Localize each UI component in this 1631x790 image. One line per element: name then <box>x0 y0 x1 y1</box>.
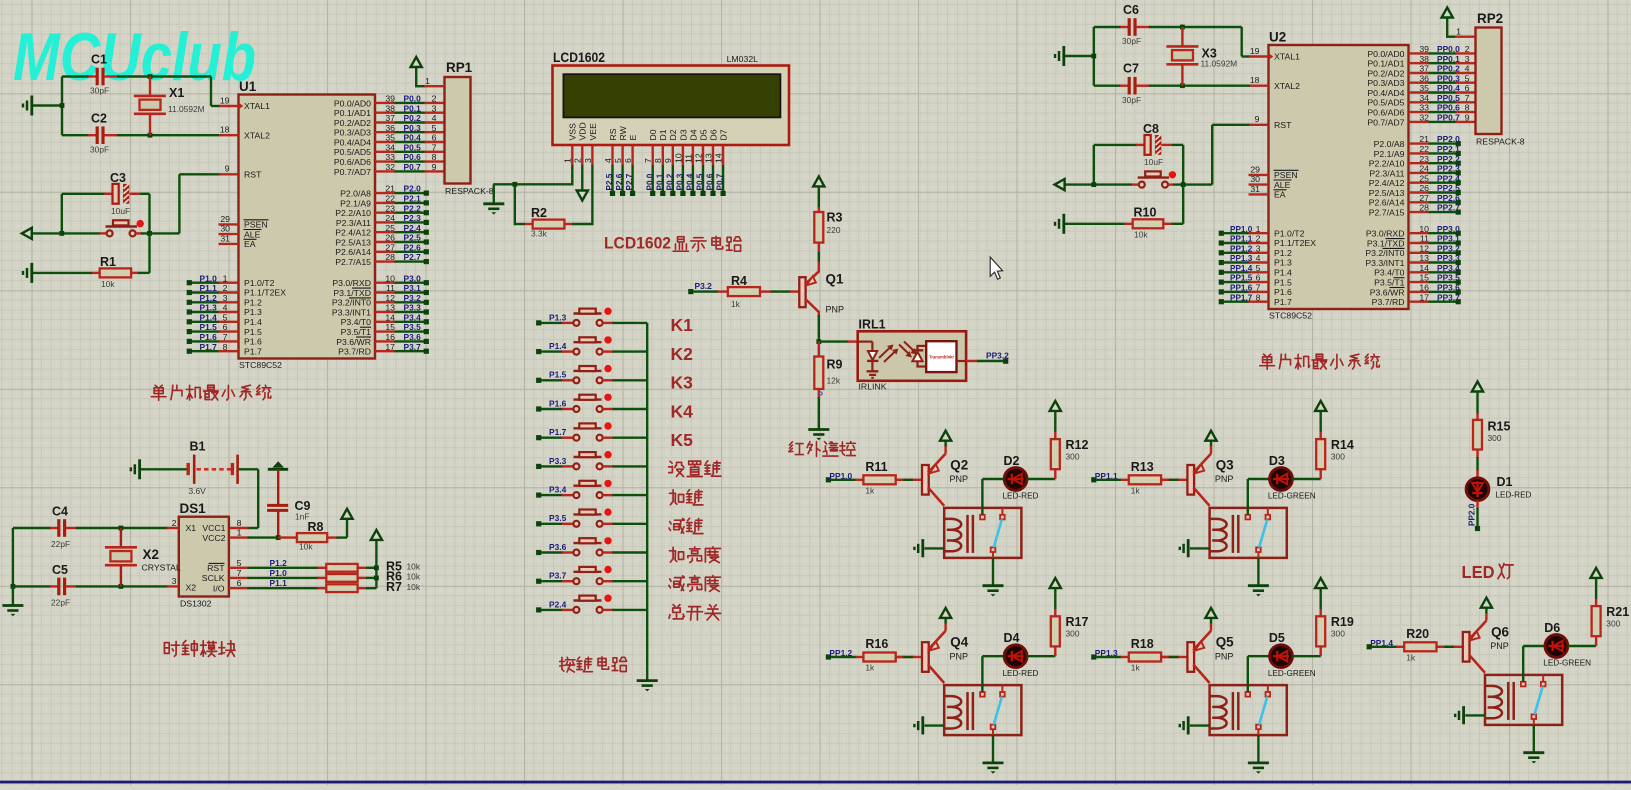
push button P3.3 key <box>536 464 541 469</box>
svg-text:D6: D6 <box>708 129 718 140</box>
wire R1 to button junction <box>148 233 150 273</box>
svg-text:P1.5: P1.5 <box>549 370 567 380</box>
svg-text:C4: C4 <box>52 505 68 519</box>
svg-text:P2.6: P2.6 <box>615 173 624 190</box>
keypad bus wire <box>646 323 648 680</box>
svg-text:P0.2/AD2: P0.2/AD2 <box>1367 68 1404 78</box>
resistor R8 10k <box>278 536 298 538</box>
wire ground drop VSS <box>493 184 495 203</box>
pin P0.1 U2 to RP2 <box>1409 62 1430 64</box>
ground relay Q6 <box>1523 751 1544 754</box>
red state dot reset button U1 <box>137 220 144 227</box>
svg-text:3: 3 <box>223 293 228 303</box>
svg-text:P3.7/RD: P3.7/RD <box>338 347 371 357</box>
svg-text:P3.4/T0: P3.4/T0 <box>341 317 372 327</box>
svg-text:LED-RED: LED-RED <box>1003 492 1039 501</box>
pin P0.5 U1 to RP1 <box>375 151 395 153</box>
crystal X1 11.0592M <box>149 77 151 96</box>
LCD1602 display LM032L <box>553 66 790 146</box>
svg-text:D2: D2 <box>668 129 678 140</box>
transistor Q5 PNP <box>1187 642 1194 672</box>
wire XTAL1 net U2 <box>1240 27 1242 57</box>
receiver block IRL1 <box>926 341 956 372</box>
pin P2.1 U1 with terminal <box>375 202 395 204</box>
svg-text:LED: LED <box>1462 562 1495 582</box>
pin P3.1 U1 with terminal <box>375 291 395 293</box>
capacitor C7 30pF <box>1094 84 1121 86</box>
svg-text:P1.1/T2EX: P1.1/T2EX <box>1274 238 1316 248</box>
svg-text:2: 2 <box>1256 234 1261 244</box>
terminal PP2.0 <box>1475 526 1480 531</box>
svg-text:P1.7: P1.7 <box>200 342 218 352</box>
svg-text:PP0.6: PP0.6 <box>1437 103 1460 113</box>
wire D4 to R17 <box>1027 655 1055 657</box>
svg-text:C1: C1 <box>91 53 107 67</box>
reset button U2 <box>1138 176 1169 178</box>
pin P0.1 U1 to RP1 <box>375 111 395 113</box>
wire D5 to R19 <box>1293 655 1321 657</box>
svg-text:7: 7 <box>1256 283 1261 293</box>
svg-text:P0.5: P0.5 <box>696 173 705 190</box>
svg-text:X2: X2 <box>143 547 159 562</box>
svg-text:PP0.7: PP0.7 <box>1437 113 1460 123</box>
svg-text:30: 30 <box>220 224 230 234</box>
svg-text:PNP: PNP <box>1215 651 1234 661</box>
svg-text:1: 1 <box>223 273 228 283</box>
svg-text:C7: C7 <box>1123 62 1139 76</box>
pin P2.2 U2 with terminal PP2.2 <box>1409 162 1430 164</box>
svg-text:PP1.7: PP1.7 <box>1230 293 1253 302</box>
svg-text:10: 10 <box>673 153 683 163</box>
svg-text:18: 18 <box>1250 75 1260 85</box>
svg-text:36: 36 <box>385 123 395 133</box>
ground left of B1 <box>138 459 141 479</box>
power arrow R21 <box>1591 568 1602 578</box>
svg-text:P1.6: P1.6 <box>1274 287 1292 297</box>
svg-text:29: 29 <box>220 214 230 224</box>
push button P1.3 key <box>536 320 541 325</box>
svg-text:PNP: PNP <box>826 305 845 315</box>
label minimal system 1 <box>151 385 166 400</box>
svg-text:P1.1/T2EX: P1.1/T2EX <box>244 288 286 298</box>
svg-text:P3.4: P3.4 <box>549 485 567 495</box>
LED D3 LED-GREEN <box>1270 468 1293 491</box>
pin P3.0 U1 with terminal <box>375 282 395 284</box>
svg-text:P2.3/A11: P2.3/A11 <box>336 218 371 228</box>
label key 加亮度 <box>669 547 683 562</box>
pin row R6 DS1 <box>229 577 249 579</box>
pin P2.6 U2 with terminal PP2.6 <box>1409 201 1430 203</box>
svg-text:P3.6/WR: P3.6/WR <box>1370 287 1405 297</box>
wire D1 to PP2.0 <box>1476 500 1478 509</box>
junction left rail U2 <box>1091 54 1096 59</box>
ground relay Q4 <box>983 762 1004 765</box>
LED D6 LED-GREEN <box>1545 635 1568 658</box>
svg-text:P3.7: P3.7 <box>549 571 567 581</box>
svg-text:P0.5/AD5: P0.5/AD5 <box>334 147 371 157</box>
svg-text:14: 14 <box>385 312 395 322</box>
svg-text:P0.2: P0.2 <box>404 113 422 123</box>
pin P1.7 U1 with terminal <box>192 350 220 352</box>
svg-text:P2.4: P2.4 <box>404 223 422 233</box>
svg-text:300: 300 <box>1331 452 1345 462</box>
wire collector Q6 to power <box>1485 612 1487 620</box>
wire IRL1 output PP3.2 <box>957 360 967 362</box>
junction left rail clock <box>11 584 16 589</box>
wire base Q3 <box>1161 479 1170 481</box>
resistor R12 300 <box>1051 439 1060 469</box>
svg-text:P0.5/AD5: P0.5/AD5 <box>1367 98 1404 108</box>
svg-text:9: 9 <box>1255 114 1260 124</box>
svg-text:I/O: I/O <box>213 584 225 594</box>
pin P2.0 U2 with terminal PP2.0 <box>1409 142 1430 144</box>
svg-text:2: 2 <box>573 158 583 163</box>
pin P2.5 U1 with terminal <box>375 241 395 243</box>
svg-text:Q1: Q1 <box>826 272 844 287</box>
pin P3.6 U1 with terminal <box>375 340 395 342</box>
svg-text:PP1.6: PP1.6 <box>1230 284 1253 293</box>
svg-text:P2.2: P2.2 <box>404 203 422 213</box>
wire rail to ground <box>12 586 14 605</box>
wire R9 to ground <box>818 389 820 398</box>
svg-text:32: 32 <box>1419 113 1429 123</box>
wire R4 to Q1 base <box>771 290 791 292</box>
svg-text:VCC2: VCC2 <box>202 533 225 543</box>
svg-text:24: 24 <box>385 213 395 223</box>
svg-text:P0.6/AD6: P0.6/AD6 <box>1367 108 1404 118</box>
wire VSS LCD <box>571 165 573 186</box>
svg-text:11: 11 <box>1420 234 1429 244</box>
svg-text:15: 15 <box>385 322 395 332</box>
svg-text:30pF: 30pF <box>1122 95 1141 105</box>
svg-text:5: 5 <box>613 158 623 163</box>
svg-text:P1.6: P1.6 <box>549 398 567 408</box>
power arrow R12 <box>1050 401 1061 411</box>
svg-text:P0.1/AD1: P0.1/AD1 <box>334 108 371 118</box>
svg-text:14: 14 <box>1419 263 1429 273</box>
svg-text:P0.3/AD3: P0.3/AD3 <box>1367 78 1404 88</box>
pin P3.0 U2 with terminal PP3.0 <box>1409 232 1430 234</box>
svg-text:P2.6/A14: P2.6/A14 <box>335 247 371 257</box>
capacitor C6 30pF <box>1094 26 1121 28</box>
svg-text:P2.5/A13: P2.5/A13 <box>335 237 371 247</box>
junction C2-X1 <box>148 133 153 138</box>
wire RP2 pin1 to power <box>1447 36 1456 38</box>
power arrow R5R6R7 <box>371 530 382 540</box>
label key 减键 <box>669 519 684 534</box>
resistor R11 1k <box>855 479 863 481</box>
relay Q2 <box>944 508 1021 558</box>
svg-text:STC89C52: STC89C52 <box>239 360 282 370</box>
svg-text:E: E <box>628 135 638 141</box>
svg-text:P2.0: P2.0 <box>404 184 422 194</box>
pin P3.7 U2 with terminal PP3.7 <box>1409 301 1430 303</box>
svg-text:P3.2: P3.2 <box>404 293 422 303</box>
svg-text:11.0592M: 11.0592M <box>168 104 205 114</box>
svg-text:P0.7/AD7: P0.7/AD7 <box>334 167 371 177</box>
svg-text:16: 16 <box>1419 283 1429 293</box>
svg-text:PSEN: PSEN <box>1274 170 1298 180</box>
resistor R10 10k <box>1065 223 1126 225</box>
svg-text:K4: K4 <box>671 401 694 421</box>
svg-text:5: 5 <box>1465 73 1470 83</box>
wire PP1.3 to R18 <box>1096 656 1122 658</box>
svg-text:R19: R19 <box>1331 615 1354 629</box>
pin P2.4 U2 with terminal PP2.4 <box>1409 181 1430 183</box>
svg-text:VDD: VDD <box>578 122 588 140</box>
svg-text:P0.1/AD1: P0.1/AD1 <box>1367 59 1404 69</box>
svg-text:PNP: PNP <box>950 651 969 661</box>
svg-text:P2.1: P2.1 <box>404 194 422 204</box>
svg-text:PNP: PNP <box>1490 641 1509 651</box>
svg-text:LED-RED: LED-RED <box>1496 491 1532 500</box>
svg-text:P2.4/A12: P2.4/A12 <box>1369 178 1405 188</box>
svg-text:XTAL1: XTAL1 <box>244 101 270 111</box>
wire D2 to R12 <box>1027 478 1055 480</box>
pin ALE U1 <box>219 233 239 235</box>
svg-text:220: 220 <box>827 225 841 235</box>
svg-text:10: 10 <box>385 273 395 283</box>
wire relay contact to ground Q2 <box>992 558 994 585</box>
svg-text:6: 6 <box>432 133 437 143</box>
svg-text:D3: D3 <box>1269 454 1285 468</box>
push button P1.6 key <box>536 406 541 411</box>
svg-text:P1.2: P1.2 <box>1274 248 1292 258</box>
wire collector Q3 to power <box>1210 445 1212 453</box>
power arrow R17 <box>1050 578 1061 588</box>
wire button row right <box>141 232 179 234</box>
svg-text:P3.2/INT0: P3.2/INT0 <box>332 298 371 308</box>
svg-text:10k: 10k <box>101 279 115 289</box>
pin P0.2 U1 to RP1 <box>375 121 395 123</box>
svg-text:P1.4: P1.4 <box>200 312 218 322</box>
svg-text:4: 4 <box>603 158 613 163</box>
svg-text:26: 26 <box>1419 183 1429 193</box>
svg-text:D1: D1 <box>658 129 668 140</box>
svg-text:RST: RST <box>244 170 262 180</box>
resistor R5 10k <box>326 564 357 572</box>
svg-text:P0.0: P0.0 <box>645 173 654 190</box>
wire R15 to D1 <box>1476 457 1478 471</box>
svg-text:D6: D6 <box>1544 621 1560 635</box>
svg-text:13: 13 <box>1419 253 1429 263</box>
svg-text:5: 5 <box>223 312 228 322</box>
ground clock module <box>2 604 23 607</box>
wire D3 to terminal P0.3 <box>682 165 684 192</box>
svg-text:P0.4/AD4: P0.4/AD4 <box>334 137 371 147</box>
svg-text:29: 29 <box>1250 164 1260 174</box>
svg-text:RP1: RP1 <box>446 60 473 75</box>
svg-text:R16: R16 <box>865 637 888 651</box>
svg-text:Q5: Q5 <box>1216 635 1234 650</box>
svg-text:R3: R3 <box>827 211 843 225</box>
pin P2.5 U2 with terminal PP2.5 <box>1409 191 1430 193</box>
chip DS1 DS1302 <box>179 517 229 597</box>
svg-text:39: 39 <box>385 94 395 104</box>
svg-text:P1.7: P1.7 <box>244 346 262 356</box>
svg-text:P0.7/AD7: P0.7/AD7 <box>1367 117 1404 127</box>
svg-text:P1.1: P1.1 <box>200 283 218 293</box>
wire VDD LCD <box>581 165 583 195</box>
ground left of C6 C7 <box>1062 46 1065 66</box>
svg-text:5: 5 <box>1256 263 1261 273</box>
pin P1.5 U2 with terminal PP1.5 <box>1224 281 1250 283</box>
crystal X3 11.0592M <box>1181 27 1183 46</box>
resistor R20 1k <box>1396 646 1404 648</box>
svg-text:24: 24 <box>1419 164 1429 174</box>
svg-text:12k: 12k <box>827 376 841 386</box>
pin P1.2 U1 with terminal <box>192 301 220 303</box>
svg-text:P1.4: P1.4 <box>244 317 262 327</box>
pin P1.3 U2 with terminal PP1.3 <box>1224 261 1250 263</box>
bottom window border <box>0 781 1631 784</box>
svg-text:6: 6 <box>1465 83 1470 93</box>
pin P2.3 U2 with terminal PP2.3 <box>1409 172 1430 174</box>
svg-text:PP0.1: PP0.1 <box>1437 54 1460 64</box>
svg-text:RST: RST <box>207 563 225 573</box>
wire D6 to R21 <box>1568 645 1596 647</box>
svg-text:8: 8 <box>237 518 242 528</box>
svg-text:RP2: RP2 <box>1477 11 1503 26</box>
capacitor C9 1nF <box>277 469 279 504</box>
resistor R9 12k <box>818 342 820 357</box>
svg-text:K2: K2 <box>671 344 694 364</box>
svg-text:P3.7/RD: P3.7/RD <box>1372 297 1405 307</box>
svg-text:Q4: Q4 <box>950 635 968 650</box>
svg-text:33: 33 <box>1419 103 1429 113</box>
wire C4-C5 left rail <box>12 528 14 586</box>
svg-text:PP1.1: PP1.1 <box>1230 235 1253 244</box>
svg-text:PP0.5: PP0.5 <box>1437 93 1460 103</box>
junction R5 bus <box>374 565 379 570</box>
pin P2.6 U1 with terminal <box>375 251 395 253</box>
wire X2 pin DS1 <box>123 585 168 587</box>
svg-text:PSEN: PSEN <box>244 220 268 230</box>
power arrow Q5 <box>1205 608 1216 618</box>
svg-text:21: 21 <box>385 184 395 194</box>
svg-text:2: 2 <box>172 518 177 528</box>
svg-text:300: 300 <box>1066 452 1080 462</box>
U1 microcontroller STC89C52 <box>239 95 376 359</box>
svg-text:PP1.4: PP1.4 <box>1230 264 1253 273</box>
junction VSS ground R2 <box>512 182 517 187</box>
resistor R3 220 <box>818 207 820 212</box>
svg-text:10k: 10k <box>407 562 421 572</box>
svg-text:7: 7 <box>237 568 242 578</box>
svg-text:PP1.2: PP1.2 <box>1230 244 1253 253</box>
power arrow Q4 <box>940 608 951 618</box>
svg-text:1k: 1k <box>731 299 741 309</box>
svg-text:7: 7 <box>432 142 437 152</box>
pin P1.0 U2 with terminal PP1.0 <box>1224 232 1250 234</box>
svg-text:30pF: 30pF <box>1122 36 1141 46</box>
svg-text:21: 21 <box>1419 134 1429 144</box>
label key 减亮度 <box>669 576 684 591</box>
svg-text:LED-RED: LED-RED <box>1003 669 1039 678</box>
transistor Q3 PNP <box>1187 465 1194 495</box>
U2 microcontroller STC89C52 <box>1269 45 1409 309</box>
ground left relay Q2 <box>925 547 945 549</box>
svg-text:30pF: 30pF <box>90 145 109 155</box>
svg-text:8: 8 <box>653 158 663 163</box>
svg-text:3.3k: 3.3k <box>531 229 548 239</box>
wire RW to terminal P2.6 <box>621 165 623 192</box>
svg-text:P1.3: P1.3 <box>549 312 567 322</box>
svg-text:1: 1 <box>1456 27 1461 37</box>
svg-text:STC89C52: STC89C52 <box>1269 311 1312 321</box>
svg-text:P3.4: P3.4 <box>404 312 422 322</box>
svg-text:VCC1: VCC1 <box>202 523 225 533</box>
svg-text:19: 19 <box>220 96 230 106</box>
pin P0.0 U1 to RP1 <box>375 102 395 104</box>
svg-text:31: 31 <box>1250 184 1260 194</box>
pin P1.6 U2 with terminal PP1.6 <box>1224 291 1250 293</box>
svg-text:P3.6: P3.6 <box>549 542 567 552</box>
svg-text:33: 33 <box>385 152 395 162</box>
ground under R9 <box>808 428 829 431</box>
svg-text:10uF: 10uF <box>111 206 130 216</box>
pin P1.5 U1 with terminal <box>192 330 220 332</box>
junction R6 bus <box>374 576 379 581</box>
svg-text:D3: D3 <box>678 129 688 140</box>
svg-text:P1.6: P1.6 <box>200 332 218 342</box>
svg-text:8: 8 <box>432 152 437 162</box>
svg-text:4: 4 <box>432 113 437 123</box>
svg-text:PP0.4: PP0.4 <box>1437 83 1460 93</box>
wire PP1.2 to R16 <box>831 656 857 658</box>
pin P3.3 U2 with terminal PP3.3 <box>1409 261 1430 263</box>
svg-text:34: 34 <box>385 142 395 152</box>
svg-text:10: 10 <box>1419 224 1429 234</box>
pin P2.7 U1 with terminal <box>375 260 395 262</box>
svg-text:32: 32 <box>385 162 395 172</box>
label key 加键 <box>669 490 683 505</box>
svg-text:38: 38 <box>1419 54 1429 64</box>
svg-text:4: 4 <box>223 303 228 313</box>
pin P2.0 U1 with terminal <box>375 192 395 194</box>
junction button left U2 <box>1091 182 1096 187</box>
svg-text:7: 7 <box>1465 93 1470 103</box>
power arrow Q3 <box>1205 431 1216 441</box>
svg-text:P2.5/A13: P2.5/A13 <box>1369 188 1405 198</box>
svg-text:P0.1: P0.1 <box>655 173 664 190</box>
svg-text:19: 19 <box>1250 46 1260 56</box>
svg-text:R17: R17 <box>1066 615 1089 629</box>
ground left relay Q6 <box>1465 714 1485 716</box>
push button P3.5 key <box>536 521 541 526</box>
pin P0.3 U1 to RP1 <box>375 131 395 133</box>
svg-text:10k: 10k <box>299 542 313 552</box>
svg-text:2: 2 <box>223 283 228 293</box>
junction left rail <box>60 103 65 108</box>
svg-text:P3.3: P3.3 <box>549 456 567 466</box>
svg-text:31: 31 <box>220 233 230 243</box>
resistor pack RP1 RESPACK-8 <box>445 77 471 184</box>
wire base Q2 <box>896 479 905 481</box>
pin P0.7 U2 to RP2 <box>1409 121 1430 123</box>
power arrow RP1 <box>411 57 422 67</box>
svg-text:P2.0/A8: P2.0/A8 <box>1374 139 1405 149</box>
svg-text:P1.2: P1.2 <box>200 293 218 303</box>
pin marker XTAL1 U1 <box>239 103 244 109</box>
wire C1-C2 left rail <box>61 77 63 136</box>
pin P2.1 U2 with terminal PP2.1 <box>1409 152 1430 154</box>
svg-text:D4: D4 <box>688 129 698 140</box>
svg-text:7: 7 <box>223 332 228 342</box>
LED D1 LED-RED <box>1466 478 1489 501</box>
wire PP1.0 to R11 <box>831 479 857 481</box>
push button P2.4 key <box>536 607 541 612</box>
